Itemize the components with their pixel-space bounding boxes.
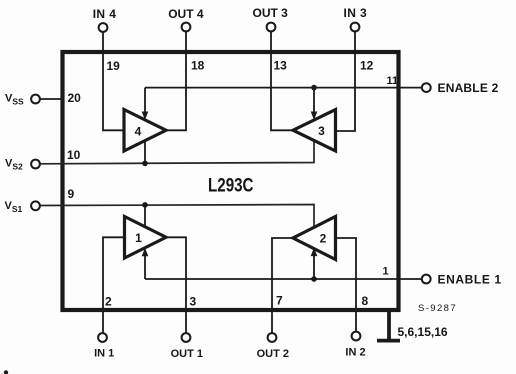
- svg-text:13: 13: [274, 59, 288, 73]
- wire pin 13 (OUT 3) to amp 3 output: [271, 32, 293, 131]
- wire amp 1 supply stub to VS1 net: [144, 205, 146, 227]
- pad IN 4: [99, 23, 108, 32]
- svg-text:S-9287: S-9287: [418, 303, 457, 314]
- svg-text:VSS: VSS: [5, 93, 24, 107]
- svg-text:8: 8: [362, 294, 369, 308]
- wire VS2 net (pin 10) to amp 3 supply: [40, 140, 314, 163]
- junction ENABLE 2 / amp 3: [311, 85, 317, 91]
- pad IN 2: [352, 332, 361, 341]
- svg-text:4: 4: [135, 125, 142, 139]
- wire enable arrow into amp 4: [144, 88, 146, 114]
- pad OUT 2: [268, 333, 277, 342]
- pad ENABLE 1: [422, 275, 431, 284]
- svg-text:2: 2: [320, 232, 327, 246]
- svg-text:3: 3: [190, 295, 197, 309]
- junction VS1 / amp 1: [142, 202, 148, 208]
- op-amp buffer 1: [125, 217, 167, 259]
- wire pin 18 (OUT 4) to amp 4 output: [166, 32, 186, 131]
- pad VS1: [31, 201, 40, 210]
- op-amp buffer 3: [293, 110, 336, 152]
- wire enable arrow into amp 1: [144, 254, 146, 279]
- svg-text:OUT 3: OUT 3: [253, 6, 289, 20]
- junction VS2 / amp 4: [142, 161, 148, 167]
- svg-text:19: 19: [107, 59, 121, 73]
- speck bottom-left: [4, 370, 8, 374]
- wire enable arrow into amp 2: [313, 254, 315, 279]
- op-amp buffer 2: [293, 217, 336, 260]
- wire VS1 net (pin 9) to amp 2 supply: [40, 205, 314, 228]
- pad ENABLE 2: [422, 83, 431, 92]
- pad OUT 4: [182, 23, 191, 32]
- svg-text:IN 1: IN 1: [94, 348, 114, 360]
- wire pin 2 (IN 1) to amp 1 input: [103, 237, 125, 333]
- svg-text:ENABLE 1: ENABLE 1: [438, 273, 502, 287]
- wire pin 3 (OUT 1) to amp 1 output: [166, 237, 186, 333]
- wire pin 19 (IN 4) to amp 4 input: [103, 32, 124, 131]
- wire ENABLE 2 net (pin 11): [145, 87, 422, 89]
- wire pin 7 (OUT 2) to amp 2 output: [272, 238, 293, 333]
- svg-text:9: 9: [68, 187, 75, 201]
- svg-text:2: 2: [105, 295, 112, 309]
- wire ENABLE 1 net (pin 1): [145, 278, 422, 280]
- svg-text:1: 1: [135, 231, 142, 245]
- op-amp buffer 4: [124, 110, 166, 152]
- svg-text:L293C: L293C: [208, 176, 254, 197]
- svg-text:OUT 1: OUT 1: [171, 348, 203, 360]
- svg-text:12: 12: [360, 59, 374, 73]
- svg-text:10: 10: [67, 148, 81, 162]
- svg-text:11: 11: [387, 75, 399, 87]
- pad OUT 1: [182, 333, 191, 342]
- pad OUT 3: [267, 23, 276, 32]
- pad VS2: [31, 160, 40, 169]
- svg-text:1: 1: [383, 266, 389, 278]
- pad VSS: [31, 95, 40, 104]
- junction ENABLE 1 / amp 2: [311, 276, 317, 282]
- wire VSS pin 20: [40, 98, 64, 100]
- svg-text:OUT 4: OUT 4: [168, 7, 204, 21]
- svg-text:VS1: VS1: [5, 200, 23, 214]
- wire enable arrow into amp 3: [313, 88, 315, 114]
- svg-text:7: 7: [276, 294, 283, 308]
- IC body outline L293C: [63, 52, 399, 310]
- pad IN 3: [351, 23, 360, 32]
- svg-text:ENABLE 2: ENABLE 2: [438, 81, 499, 95]
- svg-text:VS2: VS2: [5, 158, 23, 172]
- svg-text:3: 3: [318, 124, 325, 138]
- svg-text:IN 2: IN 2: [345, 347, 365, 359]
- ground bar: [377, 339, 400, 343]
- svg-text:20: 20: [68, 91, 82, 105]
- ground stub pins 5,6,15,16: [387, 311, 391, 339]
- svg-text:5,6,15,16: 5,6,15,16: [398, 325, 448, 339]
- wire amp 4 supply stub to VS2 net: [144, 141, 146, 164]
- svg-text:18: 18: [191, 59, 205, 73]
- wire pin 12 (IN 3) to amp 3 input: [336, 32, 356, 132]
- pad IN 1: [98, 333, 107, 342]
- wire pin 8 (IN 2) to amp 2 input: [336, 238, 357, 333]
- svg-text:IN 4: IN 4: [93, 7, 117, 21]
- svg-text:IN 3: IN 3: [343, 6, 367, 20]
- svg-text:OUT 2: OUT 2: [257, 348, 289, 360]
